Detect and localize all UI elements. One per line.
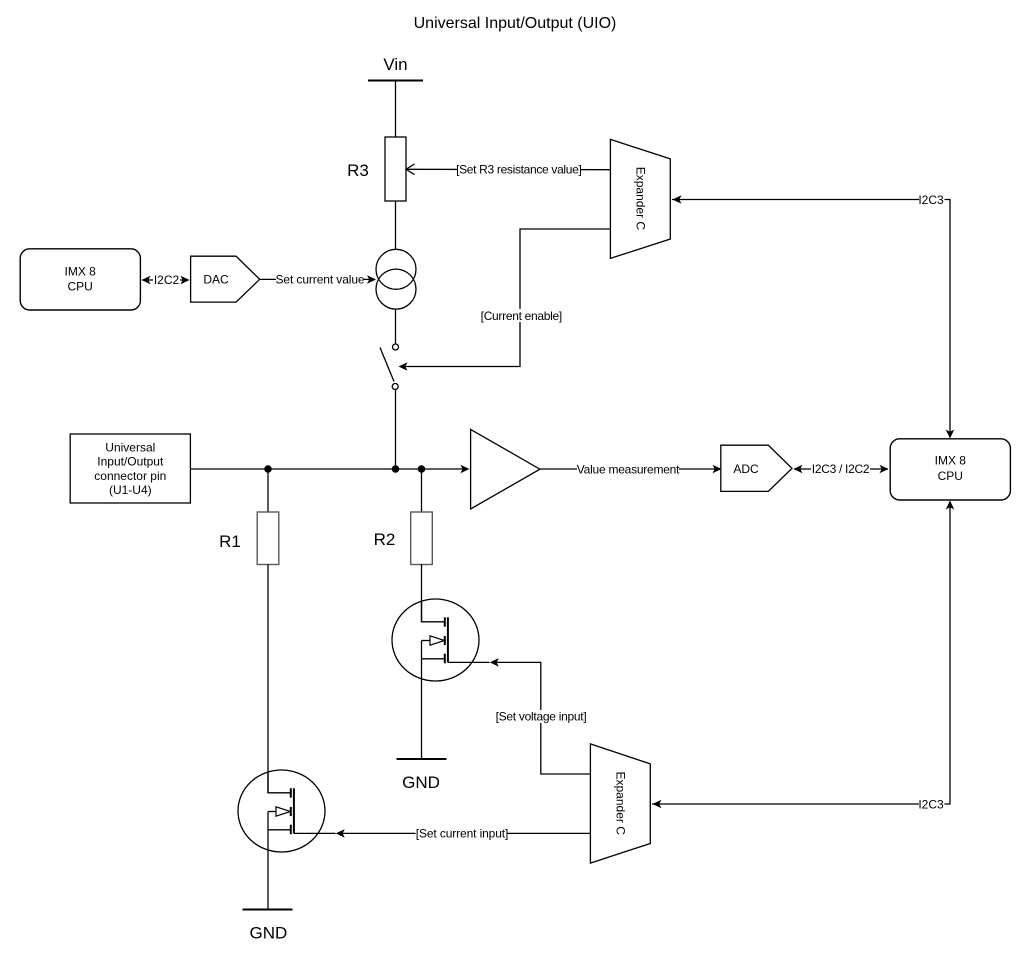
wire [Set current input] bbox=[336, 827, 591, 841]
resistor R1 bbox=[257, 512, 279, 565]
svg-text:(U1-U4): (U1-U4) bbox=[109, 483, 152, 497]
wire I2C3 (bottom, CPU to expander C) bbox=[652, 501, 954, 812]
svg-text:Set current value: Set current value bbox=[275, 273, 364, 287]
svg-text:connector pin: connector pin bbox=[94, 469, 166, 483]
wire [Current enable] bbox=[399, 229, 611, 371]
wire [Set R3 resistance value] bbox=[406, 163, 611, 177]
svg-text:Vin: Vin bbox=[383, 55, 407, 74]
wire R2 to MOSFET Q2 bbox=[421, 564, 423, 622]
svg-text:[Set current input]: [Set current input] bbox=[416, 827, 508, 841]
svg-text:IMX 8: IMX 8 bbox=[65, 265, 97, 279]
svg-text:R1: R1 bbox=[219, 532, 241, 551]
connector pin box bbox=[70, 434, 190, 503]
wire Value measurement bbox=[540, 463, 722, 477]
svg-text:I2C3 / I2C2: I2C3 / I2C2 bbox=[812, 462, 870, 476]
ground (lower GND) bbox=[243, 910, 293, 943]
svg-text:IMX 8: IMX 8 bbox=[935, 453, 967, 467]
svg-text:CPU: CPU bbox=[68, 280, 93, 294]
svg-text:[Set voltage input]: [Set voltage input] bbox=[496, 710, 587, 724]
junction node switch bbox=[392, 465, 400, 473]
resistor R2 bbox=[411, 512, 433, 565]
svg-text:GND: GND bbox=[250, 923, 288, 942]
expander C (bottom) bbox=[590, 744, 650, 863]
svg-text:Expander C: Expander C bbox=[634, 167, 648, 231]
transistor Q1 (lower MOSFET) bbox=[238, 770, 336, 910]
junction node R2 bbox=[418, 465, 426, 473]
wire I2C3 / I2C2 (double arrow) bbox=[794, 462, 889, 476]
svg-text:GND: GND bbox=[402, 773, 440, 792]
svg-text:R3: R3 bbox=[347, 161, 369, 180]
resistor R3 (digital potentiometer) bbox=[385, 137, 406, 201]
svg-text:Universal: Universal bbox=[105, 441, 155, 455]
svg-text:I2C3: I2C3 bbox=[918, 798, 944, 812]
wire [Set voltage input] bbox=[490, 658, 591, 774]
power symbol Vin bbox=[368, 55, 423, 81]
wire Set current value bbox=[260, 273, 376, 287]
svg-text:Input/Output: Input/Output bbox=[97, 455, 164, 469]
svg-text:Value measurement: Value measurement bbox=[577, 463, 680, 477]
current source I1 bbox=[376, 249, 416, 309]
wire junction to R1 bbox=[267, 469, 269, 512]
svg-text:CPU: CPU bbox=[938, 469, 963, 483]
wire Vin to R3 bbox=[395, 81, 397, 138]
wire I2C2 (double arrow) bbox=[142, 273, 190, 287]
svg-text:ADC: ADC bbox=[733, 462, 759, 476]
wire current source to switch bbox=[395, 309, 397, 344]
junction node R1 bbox=[264, 465, 272, 473]
svg-text:[Set R3 resistance value]: [Set R3 resistance value] bbox=[456, 163, 581, 177]
ADC block bbox=[721, 445, 792, 491]
IMX 8 CPU box (right) bbox=[890, 439, 1010, 500]
wire switch to main net bbox=[395, 390, 397, 470]
switch S1 (current enable) bbox=[380, 344, 399, 390]
transistor Q2 (upper MOSFET) bbox=[392, 599, 490, 759]
svg-text:I2C3: I2C3 bbox=[918, 193, 944, 207]
main horizontal net bbox=[190, 465, 469, 474]
op-amp buffer bbox=[471, 429, 540, 509]
wire I2C3 (top, expander C to CPU) bbox=[672, 193, 954, 439]
wire R1 to MOSFET Q1 bbox=[267, 565, 269, 794]
IMX 8 CPU box (left) bbox=[20, 249, 140, 310]
expander C (top) bbox=[610, 139, 670, 258]
svg-text:DAC: DAC bbox=[203, 273, 229, 287]
ground (upper GND) bbox=[397, 759, 447, 792]
svg-text:Universal Input/Output (UIO): Universal Input/Output (UIO) bbox=[414, 15, 617, 32]
svg-text:I2C2: I2C2 bbox=[154, 273, 180, 287]
svg-text:R2: R2 bbox=[374, 530, 396, 549]
svg-text:[Current enable]: [Current enable] bbox=[481, 309, 562, 323]
wire junction to R2 bbox=[421, 469, 423, 512]
wire R3 to current source bbox=[395, 201, 397, 250]
DAC block bbox=[191, 256, 260, 302]
svg-text:Expander C: Expander C bbox=[613, 772, 627, 836]
